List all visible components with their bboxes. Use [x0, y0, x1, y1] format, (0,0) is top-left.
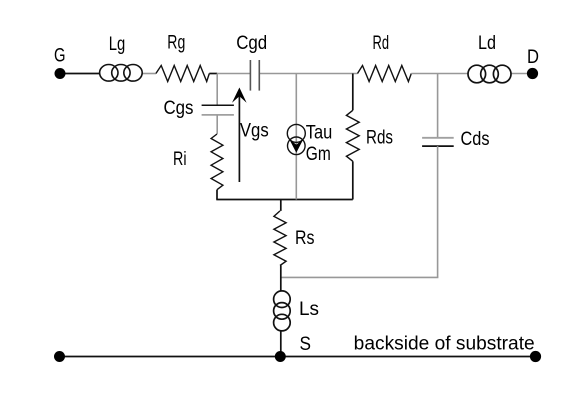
- svg-text:backside of substrate: backside of substrate: [354, 333, 535, 354]
- svg-text:Cgd: Cgd: [236, 33, 267, 54]
- svg-text:D: D: [527, 47, 539, 68]
- svg-text:Gm: Gm: [306, 144, 331, 165]
- svg-text:Rd: Rd: [373, 33, 390, 54]
- svg-text:Rds: Rds: [366, 128, 393, 149]
- svg-text:Ls: Ls: [299, 299, 319, 320]
- svg-text:Tau: Tau: [306, 122, 333, 143]
- svg-text:S: S: [300, 334, 312, 355]
- svg-text:G: G: [54, 45, 66, 66]
- svg-text:Vgs: Vgs: [240, 121, 269, 142]
- svg-text:Lg: Lg: [109, 34, 126, 55]
- svg-text:Rg: Rg: [167, 33, 185, 54]
- svg-text:Cds: Cds: [461, 129, 490, 150]
- svg-text:Cgs: Cgs: [164, 98, 194, 119]
- svg-text:Ld: Ld: [478, 33, 496, 54]
- svg-text:Ri: Ri: [173, 149, 187, 170]
- svg-text:Rs: Rs: [295, 228, 315, 249]
